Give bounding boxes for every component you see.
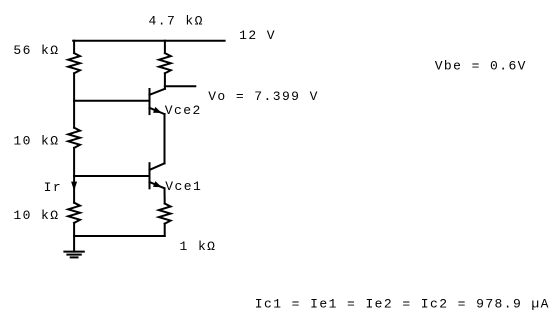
wire left rail bottom segment [73,223,75,252]
svg-text:4.7 kΩ: 4.7 kΩ [149,13,204,28]
transistor Q2 [150,89,165,114]
wire right rail to Q2 collector [164,73,166,89]
resistor 10 kΩ bottom [68,203,80,223]
transistor Q1 [150,163,165,188]
wire Q2 base [74,100,149,102]
svg-text:Vce1: Vce1 [165,179,202,194]
svg-text:Ic1 = Ie1 = Ie2 = Ic2 = 978.9: Ic1 = Ie1 = Ie2 = Ic2 = 978.9 µA [255,297,550,312]
svg-text:Vbe = 0.6V: Vbe = 0.6V [435,59,527,74]
svg-text:Vce2: Vce2 [165,103,202,118]
wire left rail top segment [73,41,75,53]
wire top 12V rail [73,40,224,42]
svg-text:10 kΩ: 10 kΩ [13,134,59,149]
ground [64,252,83,258]
arrow Ir current direction [71,182,77,191]
svg-text:56 kΩ: 56 kΩ [13,43,59,58]
resistor 1 kΩ [159,204,171,224]
svg-text:12 V: 12 V [239,28,276,43]
resistor 56 kΩ [68,53,80,73]
svg-text:10 kΩ: 10 kΩ [13,208,59,223]
svg-text:Vo = 7.399 V: Vo = 7.399 V [208,89,319,104]
wire left rail segment 3 [73,148,75,203]
wire Vo output [165,85,195,87]
svg-text:1 kΩ: 1 kΩ [180,239,217,254]
resistor 4.7 kΩ [159,53,171,73]
wire left rail segment 2 [73,73,75,127]
resistor 10 kΩ middle [68,128,80,148]
wire Q1 emitter [164,188,166,203]
wire right rail top segment [164,41,166,53]
wire Q1 base [74,175,149,177]
wire 1k to bottom rail [164,224,166,236]
wire bottom rail [74,235,165,237]
svg-text:Ir: Ir [44,180,62,195]
wire Q2 emitter to Q1 collector [164,114,166,163]
